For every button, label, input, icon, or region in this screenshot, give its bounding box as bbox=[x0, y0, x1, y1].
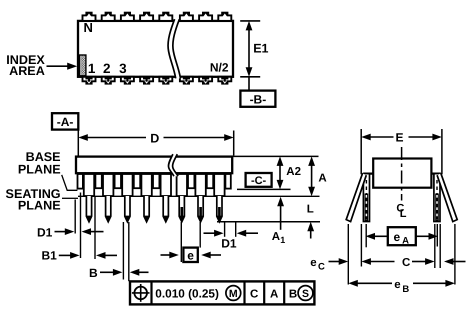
svg-text:B1: B1 bbox=[41, 249, 57, 263]
side view: molding tab 6 bbox=[207, 174, 213, 188]
eA extension stub right bbox=[436, 224, 438, 247]
svg-text:2: 2 bbox=[103, 61, 111, 76]
eB extension line right bbox=[454, 224, 456, 285]
svg-text:A: A bbox=[270, 288, 278, 300]
modifier S (RFS) bbox=[298, 286, 313, 301]
side view: molding tab 5 bbox=[188, 174, 194, 188]
D1 right arrows bbox=[204, 230, 259, 237]
side view: molding tab 2 bbox=[115, 174, 121, 188]
side view: left end tab bbox=[78, 174, 83, 189]
B: extension line right bbox=[128, 222, 130, 281]
side view: lead 5 shoulder bbox=[161, 174, 171, 196]
svg-text:S: S bbox=[302, 288, 309, 300]
datum reference B bbox=[289, 288, 297, 300]
side view: lead 6 pin tip bbox=[179, 196, 184, 222]
base plane line (right) bbox=[237, 188, 291, 190]
D1 left arrows bbox=[55, 228, 104, 235]
side view: lead 8 shoulder bbox=[214, 174, 224, 196]
datum -A- box bbox=[52, 113, 78, 129]
D1 left: extension line 2 bbox=[80, 193, 82, 259]
eA arrows bbox=[366, 233, 439, 240]
svg-text:D1: D1 bbox=[37, 225, 53, 239]
centerline symbol bbox=[396, 202, 406, 220]
side view: molding tab 4 bbox=[153, 174, 159, 188]
top view: bottom row lead 5 bbox=[159, 77, 172, 85]
svg-text:e: e bbox=[394, 279, 400, 291]
side view: lead 4 pin tip bbox=[144, 196, 149, 222]
svg-text:B: B bbox=[402, 284, 409, 295]
svg-text:L: L bbox=[400, 208, 407, 220]
svg-text:A: A bbox=[318, 172, 326, 184]
svg-text:e: e bbox=[187, 248, 194, 262]
svg-text:A: A bbox=[272, 231, 280, 243]
BASE PLANE label bbox=[18, 150, 61, 176]
B1 arrows bbox=[59, 252, 117, 259]
E1 dimension line with arrows bbox=[246, 21, 253, 77]
seating plane line bbox=[78, 195, 320, 197]
L label bbox=[307, 204, 314, 216]
side view: package body bbox=[76, 157, 232, 174]
seating plane leader line bbox=[62, 197, 78, 199]
svg-text:D: D bbox=[150, 132, 159, 146]
top view: pin number 2 bbox=[103, 61, 111, 76]
side view: lead 4 shoulder bbox=[141, 174, 151, 196]
D1 left: extension line 1 bbox=[74, 200, 76, 234]
top view: pin number 1 bbox=[88, 61, 96, 76]
side view: right end tab bbox=[225, 174, 230, 189]
svg-text:e: e bbox=[310, 257, 316, 269]
top view: bottom row lead 8 bbox=[218, 77, 231, 85]
INDEX AREA label bbox=[6, 53, 45, 78]
svg-text:N/2: N/2 bbox=[210, 61, 229, 75]
svg-text:E1: E1 bbox=[253, 42, 268, 56]
svg-text:D1: D1 bbox=[221, 236, 237, 250]
datum -C- box bbox=[246, 173, 272, 187]
D1 left label bbox=[37, 225, 53, 239]
svg-text:-B-: -B- bbox=[250, 93, 267, 107]
e dimension: right centerline extension bbox=[199, 222, 201, 248]
datum reference A bbox=[270, 288, 278, 300]
A1 dimension arrow bbox=[277, 197, 284, 230]
svg-text:M: M bbox=[229, 288, 238, 300]
D dimension line with arrows bbox=[78, 134, 233, 141]
base plane leader line bbox=[62, 175, 78, 190]
side view: lead 2 shoulder bbox=[103, 174, 113, 196]
SEATING PLANE label bbox=[6, 187, 61, 213]
svg-text:A2: A2 bbox=[286, 166, 301, 178]
top view: bottom row lead 2 bbox=[102, 77, 115, 85]
eA box bbox=[388, 227, 416, 246]
svg-text:N: N bbox=[84, 20, 93, 35]
D1 right: extension line 2 bbox=[235, 222, 237, 237]
eB extension line left bbox=[347, 224, 349, 285]
svg-text:e: e bbox=[393, 230, 400, 244]
svg-text:-C-: -C- bbox=[251, 175, 267, 187]
side view: lead 1 pin tip bbox=[86, 196, 91, 222]
side view: lead 2 pin tip bbox=[106, 196, 111, 222]
A1 label bbox=[272, 231, 286, 245]
eC arrow right bbox=[444, 258, 466, 265]
end view: centerline bbox=[401, 147, 403, 201]
datum reference C bbox=[250, 288, 258, 300]
end view: package body bbox=[373, 159, 431, 188]
D1 right: extension line 1 bbox=[224, 222, 226, 237]
B: extension line left bbox=[122, 222, 124, 280]
connector line to -B- datum bbox=[248, 77, 250, 91]
svg-text:PLANE: PLANE bbox=[18, 162, 61, 176]
end view: E extension line left bbox=[360, 129, 362, 174]
E label bbox=[395, 131, 403, 145]
feature control frame: cell dividers bbox=[152, 281, 285, 304]
svg-text:PLANE: PLANE bbox=[18, 199, 61, 213]
E1 dimension: top extension tick bbox=[240, 20, 260, 22]
e arrows bbox=[161, 252, 222, 259]
end view: shoulder line bbox=[363, 173, 440, 175]
B arrows bbox=[100, 269, 149, 276]
e dimension: left centerline extension bbox=[180, 222, 182, 262]
svg-text:C: C bbox=[250, 288, 258, 300]
top view: top row lead 7 bbox=[199, 12, 212, 21]
E1 label bbox=[253, 42, 268, 56]
B1: extension line bbox=[94, 196, 96, 259]
svg-text:C: C bbox=[318, 262, 325, 273]
eC arrow left bbox=[329, 258, 349, 265]
C extension line left bbox=[360, 224, 362, 267]
end view: left splayed lead bbox=[346, 173, 366, 221]
side view: lead 3 shoulder bbox=[122, 174, 132, 196]
end view: right vertical lead bbox=[434, 174, 440, 222]
eB dimension arrows bbox=[348, 280, 455, 287]
top view: break line (wavy) bbox=[168, 19, 180, 78]
top view: top row lead 8 bbox=[218, 12, 231, 21]
D1 right label bbox=[221, 236, 237, 250]
svg-text:B: B bbox=[89, 266, 98, 280]
top view: bottom row lead 4 bbox=[140, 77, 153, 85]
end view: right splayed lead bbox=[437, 173, 457, 221]
svg-text:0.010 (0.25): 0.010 (0.25) bbox=[155, 286, 219, 300]
top view: bottom row lead 1 bbox=[83, 77, 96, 85]
svg-text:B: B bbox=[289, 288, 297, 300]
C dimension arrows bbox=[361, 258, 434, 265]
eC label bbox=[310, 257, 325, 273]
top view: pin number 3 bbox=[119, 61, 127, 76]
A label bbox=[318, 172, 326, 184]
D label bbox=[150, 132, 159, 146]
lead tip line (right) bbox=[217, 221, 320, 223]
svg-text:C: C bbox=[402, 257, 410, 269]
feature control frame: outer box bbox=[130, 281, 314, 304]
C extension lines right bbox=[435, 224, 440, 268]
svg-text:-A-: -A- bbox=[57, 115, 74, 129]
side view: lead 6 shoulder bbox=[177, 174, 187, 196]
position tolerance symbol bbox=[132, 284, 150, 302]
side view: lead 5 pin tip bbox=[163, 196, 168, 222]
top view: top row lead 1 bbox=[83, 12, 96, 21]
B label bbox=[89, 266, 98, 280]
A2 dimension arrows bbox=[277, 156, 284, 189]
side view: lead 8 pin tip bbox=[217, 196, 222, 222]
E1 dimension: bottom extension tick bbox=[240, 76, 260, 78]
eB label bbox=[394, 279, 409, 295]
index area arrow bbox=[47, 63, 78, 70]
svg-text:1: 1 bbox=[88, 61, 96, 76]
side view: lead 7 pin tip bbox=[198, 196, 203, 222]
L dimension arrow (up to lead tip line) bbox=[307, 222, 314, 239]
top view: package body outline bbox=[78, 21, 233, 77]
modifier M (MMC) bbox=[226, 286, 241, 301]
svg-text:3: 3 bbox=[119, 61, 127, 76]
end view: E extension line right bbox=[441, 129, 443, 174]
top view: top row lead 3 bbox=[121, 12, 134, 21]
top view: N label bbox=[84, 20, 93, 35]
side view: break line (wavy) bbox=[168, 154, 178, 176]
top view: top row lead 5 bbox=[159, 12, 172, 21]
E dimension arrows bbox=[361, 134, 442, 141]
top view: top row lead 4 bbox=[140, 12, 153, 21]
side view: lead 1 shoulder bbox=[84, 174, 94, 196]
svg-text:L: L bbox=[307, 204, 314, 216]
side view: molding tab 1 bbox=[95, 174, 101, 188]
top view: bottom row lead 3 bbox=[121, 77, 134, 85]
D dimension: left extension line bbox=[77, 130, 79, 156]
tolerance value 0.010 (0.25) bbox=[155, 286, 219, 300]
top view: top row lead 2 bbox=[102, 12, 115, 21]
top view: index area (hatched) bbox=[79, 55, 86, 76]
A dimension arrows bbox=[308, 156, 315, 196]
end view: left vertical lead bbox=[363, 174, 369, 222]
D dimension: right extension line bbox=[233, 131, 235, 156]
eA extension stub left bbox=[365, 224, 367, 247]
top view: bottom row lead 6 bbox=[180, 77, 193, 85]
top view: bottom row lead 7 bbox=[199, 77, 212, 85]
side view: molding tab 3 bbox=[134, 174, 140, 188]
B1 label bbox=[41, 249, 57, 263]
svg-text:1: 1 bbox=[280, 235, 285, 245]
e box bbox=[183, 248, 197, 263]
A2 label bbox=[286, 166, 301, 178]
datum -B- box bbox=[240, 91, 275, 107]
side view: lead 3 pin tip bbox=[125, 196, 130, 222]
body top extension line (right) bbox=[233, 155, 319, 157]
top view: top row lead 6 bbox=[180, 12, 193, 21]
svg-text:A: A bbox=[402, 235, 409, 246]
top view: N/2 label bbox=[210, 61, 229, 75]
svg-text:E: E bbox=[395, 131, 403, 145]
C label bbox=[402, 257, 410, 269]
side view: lead 7 shoulder bbox=[195, 174, 205, 196]
svg-text:AREA: AREA bbox=[9, 64, 45, 78]
